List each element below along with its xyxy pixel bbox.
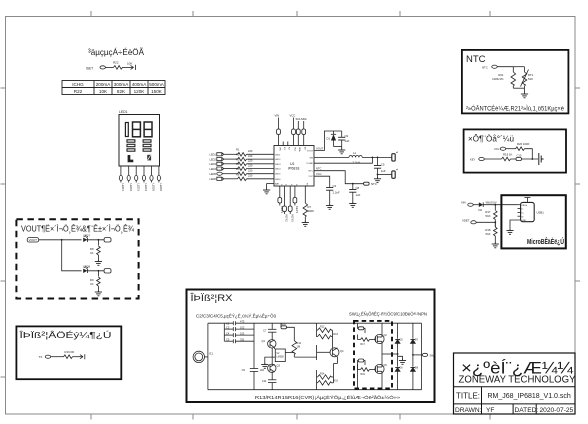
resistor R21 [512,67,514,72]
svg-text:C2/C3/C4/C5,µçÈÝ¿É¸ù¾Ý,Êµ¼Êµ÷Õ: C2/C3/C4/C5,µçÈÝ¿É¸ù¾Ý,Êµ¼Êµ÷Õû [196,314,277,319]
resistor R19 [502,157,511,161]
svg-text:VCC: VCC [316,172,322,176]
ground at U1 BAT pin [267,183,274,185]
svg-text:R10: R10 [282,323,287,326]
resistor R1 [236,148,253,157]
svg-text:VBUS: VBUS [521,205,527,207]
wire L1 to BAT+ terminal [362,156,391,158]
svg-text:VCC: VCC [494,147,500,151]
capacitor C4b [224,331,254,337]
svg-text:C3: C3 [226,325,230,329]
svg-text:LED2: LED2 [275,159,281,161]
svg-text:RM_J68_IP6818_V1.0.sch: RM_J68_IP6818_V1.0.sch [488,393,571,400]
svg-text:YF: YF [486,407,494,414]
transistor Q3 [268,364,281,373]
svg-text:473: 473 [240,320,245,324]
svg-text:Q3: Q3 [277,364,281,368]
svg-text:SDA: SDA [298,147,301,152]
switch SW2 [539,153,544,165]
node LED1 input flag [210,153,238,157]
connector BAT+ [392,154,395,161]
svg-text:D2: D2 [479,208,483,212]
node LED4 input flag [210,167,238,171]
svg-text:SW: SW [309,157,313,159]
svg-text:K1: K1 [283,147,285,150]
ferrite bead FB1 [364,182,370,185]
svg-text:LED3: LED3 [275,164,281,166]
svg-text:220: 220 [248,154,253,158]
ground mid [398,356,403,359]
svg-text:SDA: SDA [301,117,307,121]
svg-text:1uF: 1uF [356,193,361,197]
svg-text:C4: C4 [226,331,230,335]
U1 top pull-up resistor R23 [275,114,281,146]
svg-text:220: 220 [248,174,253,178]
wire top rail [513,66,524,68]
svg-text:USB1: USB1 [537,211,545,215]
svg-text:KEY2: KEY2 [285,215,289,223]
svg-text:102: 102 [240,331,245,335]
svg-text:BAT: BAT [275,183,280,186]
wire cap-bank left rail [223,323,225,341]
svg-text:300K: 300K [308,209,315,213]
svg-text:LED6: LED6 [210,177,217,181]
svg-text:LED5: LED5 [210,172,217,176]
U1 right pin name stubs [307,151,314,179]
svg-text:1K: 1K [90,251,94,255]
dashed selection box [354,321,392,389]
diode rail D6 [397,354,399,367]
pin 5 [151,166,153,175]
node LED6 input flag [210,177,238,181]
digit 1 segment [125,123,128,137]
svg-text:ÎÞÏß²¦ÂÖÉý¼¶¿Ú: ÎÞÏß²¦ÂÖÉý¼¶¿Ú [18,330,111,340]
svg-text:C6: C6 [242,368,246,372]
wire [87,270,104,272]
svg-text:D7: D7 [415,339,419,342]
svg-text:R12: R12 [320,326,325,329]
wire top rail continues [254,322,422,324]
wire to USB VBUS [483,204,517,206]
svg-text:C10: C10 [517,154,522,158]
frame tick marks top [91,11,490,17]
wire [105,66,113,68]
resistor R5 [236,167,253,175]
svg-text:DATED:: DATED: [515,407,539,414]
amp branch vertical [271,323,273,329]
svg-text:500mA: 500mA [149,82,164,87]
ground below R18 [492,243,499,248]
wire rectified rail [382,353,398,355]
pad [45,355,50,358]
svg-text:U2: U2 [277,353,281,355]
wire bottom rail [513,87,524,89]
svg-text:R11: R11 [297,341,302,345]
svg-text:R16 0R: R16 0R [65,350,74,354]
wire [332,329,333,331]
ground row2 [95,291,102,296]
svg-text:220: 220 [248,149,253,153]
svg-text:R2: R2 [236,153,240,157]
svg-text:R1: R1 [236,148,240,152]
capacitor C11 [262,379,276,383]
svg-text:NTC: NTC [371,182,377,186]
svg-text:ID: ID [521,216,524,218]
svg-text:LED3: LED3 [136,184,140,192]
svg-text:331: 331 [240,337,245,341]
thermistor RT1 [524,67,526,72]
svg-text:MicroBÊäÈë¿Ú: MicroBÊäÈë¿Ú [527,237,564,246]
svg-text:D-: D- [521,209,524,211]
custom key section box [464,129,566,172]
capacitor C3b [224,325,254,331]
resistor R9 [97,271,99,277]
drawn row divider [454,403,576,405]
svg-text:51K: 51K [528,77,533,81]
svg-text:R22: R22 [113,61,119,65]
svg-text:1uF: 1uF [381,169,386,173]
wire right rail [421,323,423,390]
transistor Q5 mosfet [375,364,387,374]
svg-text:150K: 150K [151,89,163,94]
svg-text:NTC: NTC [316,167,321,171]
svg-text:PGND: PGND [307,163,314,165]
svg-text:ISET: ISET [86,67,93,71]
svg-text:R14: R14 [320,372,325,375]
diode rail D5 [397,323,399,339]
antenna coil E1 [193,351,204,362]
svg-text:51K: 51K [486,214,491,218]
ground in MicroB box [506,229,513,234]
wire [247,163,275,165]
svg-text:NTC: NTC [466,54,486,65]
capacitor C6 [242,368,265,372]
svg-text:VDET: VDET [462,218,470,222]
svg-text:R13: R13 [334,333,339,336]
USB pin GND wire [510,220,521,230]
section box [16,326,121,379]
wire [247,173,275,175]
resistor R18b pill [357,361,360,390]
capacitor C5 [374,157,386,179]
resistor R16b pill [357,323,360,328]
wire [247,168,275,170]
wire SW rail [314,156,349,158]
svg-text:LED1: LED1 [121,184,125,192]
svg-text:IP6818: IP6818 [288,167,299,171]
svg-text:100K/1%: 100K/1% [492,77,504,81]
resistor R2 [236,153,253,161]
op-amp U1 IC body [274,146,314,187]
arrow pin [131,65,136,70]
svg-text:Q2: Q2 [384,334,388,337]
ICHG / R22 value table [62,81,165,95]
resistor R16 [64,355,73,359]
wire U2 output to right [294,356,316,358]
svg-text:SW: SW [430,353,435,357]
U1 bottom net resistor R28 [283,186,289,222]
node LED2 input flag [210,157,238,161]
wire NTC pin to bead [314,171,364,184]
frame tick marks right [575,88,580,281]
wire to R11 [287,327,295,340]
svg-text:VOUT: VOUT [307,151,314,153]
svg-text:TX: TX [39,355,43,359]
wire top rail [208,322,233,324]
svg-text:L1: L1 [353,151,357,155]
svg-text:R19: R19 [361,373,366,376]
svg-text:ICHG: ICHG [72,82,84,87]
letter L icon [128,155,134,162]
dashed section box [16,219,138,298]
capacitor C3 [326,184,340,209]
pin 6 [158,166,160,175]
svg-text:D6: D6 [400,367,404,370]
wire joining D1 and C9 bottoms [334,146,342,148]
svg-text:NTC: NTC [309,171,314,173]
capacitor C10 [516,158,522,161]
resistor R14 [318,375,332,380]
svg-text:2020-07-25: 2020-07-25 [540,407,574,414]
title row divider [454,386,576,388]
bar segments group 2 [143,140,151,151]
svg-text:R15: R15 [334,379,339,382]
net flag out row2 [104,269,111,273]
diode D1 [327,131,337,147]
U1 top pull-up resistor R24 [290,114,296,146]
resistor R3 [236,157,253,165]
frame tick marks bottom [91,414,490,420]
resistor R17b [361,338,370,342]
ground row1 [95,260,102,265]
svg-text:300mA: 300mA [114,82,129,87]
LED display pins [119,166,160,183]
svg-text:VIN: VIN [278,147,280,151]
wire with arrow pin [73,356,84,358]
resistor R13 [318,334,332,339]
svg-text:LM358: LM358 [277,357,285,359]
transistor Q2 mosfet [375,334,387,344]
svg-text:R6: R6 [236,172,240,176]
net flag out row1 [104,238,111,242]
ground under C9 [338,149,345,154]
svg-text:LED5: LED5 [152,184,156,192]
svg-text:R5: R5 [236,167,240,171]
svg-text:1M: 1M [297,345,301,349]
svg-text:LED2: LED2 [129,184,133,192]
wire VOUT pin to snubber [314,131,342,151]
svg-text:LED1: LED1 [119,110,128,114]
svg-text:Q5: Q5 [384,364,388,367]
svg-text:R3: R3 [236,157,240,161]
USB pin D- [518,208,521,210]
resistor R11 [292,341,297,355]
svg-text:200mA: 200mA [96,82,111,87]
wire [525,149,533,159]
svg-text:DRAWN:: DRAWN: [455,407,482,414]
wire [51,356,64,358]
svg-text:VOUT: VOUT [316,147,324,151]
USB connector J1 body [521,202,535,221]
svg-text:220: 220 [248,159,253,163]
ground left of Q3 [261,363,268,368]
USB pin VBUS [518,204,521,206]
bar segments group 1 [127,140,135,151]
capacitor C9 [338,131,350,149]
transistor Q1 [262,339,276,349]
svg-text:1K: 1K [90,282,94,286]
resistor R7 300K at U1 RT pin [302,186,314,226]
title block frame [454,353,576,414]
svg-text:2.2uH: 2.2uH [353,161,360,165]
pin 2 [128,166,130,175]
connector BAT- [392,171,395,178]
svg-text:VIN: VIN [275,114,280,118]
frame tick marks left [1,88,6,377]
resistor R17 [494,205,496,210]
svg-text:LED1: LED1 [210,153,217,157]
svg-text:C2: C2 [226,322,230,326]
pin 3 [135,166,137,175]
diode D2 [479,202,483,207]
svg-text:LED1: LED1 [275,154,281,156]
resistor R15 [318,381,332,386]
wire node to row2 [62,240,82,271]
node LED3 input flag [210,162,238,166]
svg-text:LED3: LED3 [210,162,217,166]
svg-text:³äµçµçÁ÷ÉèÖÃ: ³äµçµçÁ÷ÉèÖÃ [88,47,144,57]
svg-text:LED5: LED5 [275,174,281,176]
pin 4 [143,166,145,175]
svg-text:×Ô¶¨Òå°´¼ü: ×Ô¶¨Òå°´¼ü [468,134,514,144]
U1 top pull-up resistor R26 [301,117,307,146]
svg-text:²»ÓÃNTCÉè¼Æ,R21²»Ìù,1¸ö51Kµç×è: ²»ÓÃNTCÉè¼Æ,R21²»Ìù,1¸ö51Kµç×è [466,106,565,113]
wire VCC pin to C3 [314,176,330,187]
svg-text:SCL: SCL [293,147,295,152]
svg-text:GND: GND [521,220,526,222]
svg-text:R13/R14R15R16(CVR)¡ÁµçÈÝÖµ,¿ÉÌ: R13/R14R15R16(CVR)¡ÁµçÈÝÖµ,¿ÉÌùÆ¬Óë²åÖ±½… [255,394,400,401]
wire right amp rail [316,323,318,337]
U1 top pin name stubs (rotated) [278,147,305,152]
svg-text:R4: R4 [236,162,240,166]
resistor R4 [236,162,253,170]
wire [39,239,82,241]
svg-text:120K: 120K [134,89,146,94]
svg-text:VOUT¶Ë×´Ì¬Ö¸Ê¾&¶¨Ê±×´Ì¬Ö¸Ê¾: VOUT¶Ë×´Ì¬Ö¸Ê¾&¶¨Ê±×´Ì¬Ö¸Ê¾ [21,225,134,234]
wire [87,239,104,241]
svg-text:ZONEWAY TECHNOLOGY: ZONEWAY TECHNOLOGY [459,375,576,386]
U1 top pull-up resistor R25 [296,117,302,146]
U1 bottom net resistor R30 [293,186,299,214]
wire [123,66,134,68]
wire to BAT- terminal [378,174,392,176]
resistor R19b [361,368,370,372]
inductor L1 [349,151,362,165]
USB shield stub [524,198,530,203]
wire [247,178,275,180]
svg-text:VOUT: VOUT [29,238,38,242]
MicroB section box [501,195,565,248]
RX section box [187,290,435,403]
svg-text:KEY3: KEY3 [290,215,294,223]
digit 8 second [144,122,152,137]
N pattern icon [147,155,151,161]
wire U2 right pin [285,352,294,354]
resistor R10 pill [280,323,282,327]
svg-text:D8: D8 [415,367,419,370]
svg-text:2.2uF: 2.2uF [333,191,340,195]
svg-text:C7: C7 [263,329,267,333]
capacitor C8 [349,183,360,208]
capacitor C7 [263,329,276,333]
svg-text:D1: D1 [327,137,331,141]
transistor Q4 [330,348,344,357]
resistor R18 [494,222,496,227]
svg-text:Q4: Q4 [340,349,344,353]
wire U2 left to base rail [265,357,276,363]
USB pin ID [518,215,521,217]
capacitor C5b [224,337,254,343]
svg-text:51K: 51K [486,232,491,236]
svg-text:ÎÞÏß²¦RX: ÎÞÏß²¦RX [189,293,233,304]
svg-text:C8: C8 [356,186,360,190]
svg-text:104: 104 [260,368,265,372]
U1 bottom net resistor R27 [278,186,284,214]
svg-text:C5: C5 [226,337,230,341]
svg-text:10K: 10K [99,89,108,94]
svg-text:102: 102 [240,325,245,329]
svg-text:E1: E1 [210,352,214,356]
resistor R12 [318,328,332,333]
svg-text:Q1: Q1 [262,339,266,343]
svg-text:U1: U1 [290,162,295,166]
svg-text:220: 220 [248,163,253,167]
LED pin net labels (rotated) [121,184,163,192]
svg-text:C11: C11 [262,379,267,383]
pad P1 [100,66,105,69]
svg-text:LED4: LED4 [275,169,281,171]
svg-text:NTC: NTC [482,66,488,70]
LED display body [119,115,160,167]
net flag VOUT [27,238,39,242]
diode rail D7 [412,323,414,339]
resistor R22 [114,66,123,70]
U1 top short pin stubs [282,142,284,146]
svg-text:10K: 10K [127,62,132,66]
wire tank right rail [253,323,255,368]
NTC section box [462,50,569,114]
diode rail D8 [412,355,414,367]
svg-text:220: 220 [248,169,253,173]
U1 bottom pin name stubs (rotated) [280,183,308,187]
svg-text:D5: D5 [400,339,404,342]
svg-text:R17: R17 [361,343,366,346]
svg-text:LED4: LED4 [210,167,217,171]
svg-text:400mA: 400mA [132,82,147,87]
ground [524,88,526,93]
svg-text:C9: C9 [345,134,349,138]
IC U2 body [275,349,285,362]
svg-text:C3: C3 [333,184,337,188]
svg-text:LED6: LED6 [275,179,281,181]
digit 8 first [133,122,141,137]
resistor R6 [236,172,253,180]
net flag OUT [422,353,427,356]
pin 1 [120,166,122,175]
wire to OUT flag [413,354,422,356]
ground under C5 [374,177,381,182]
wire [511,158,539,160]
